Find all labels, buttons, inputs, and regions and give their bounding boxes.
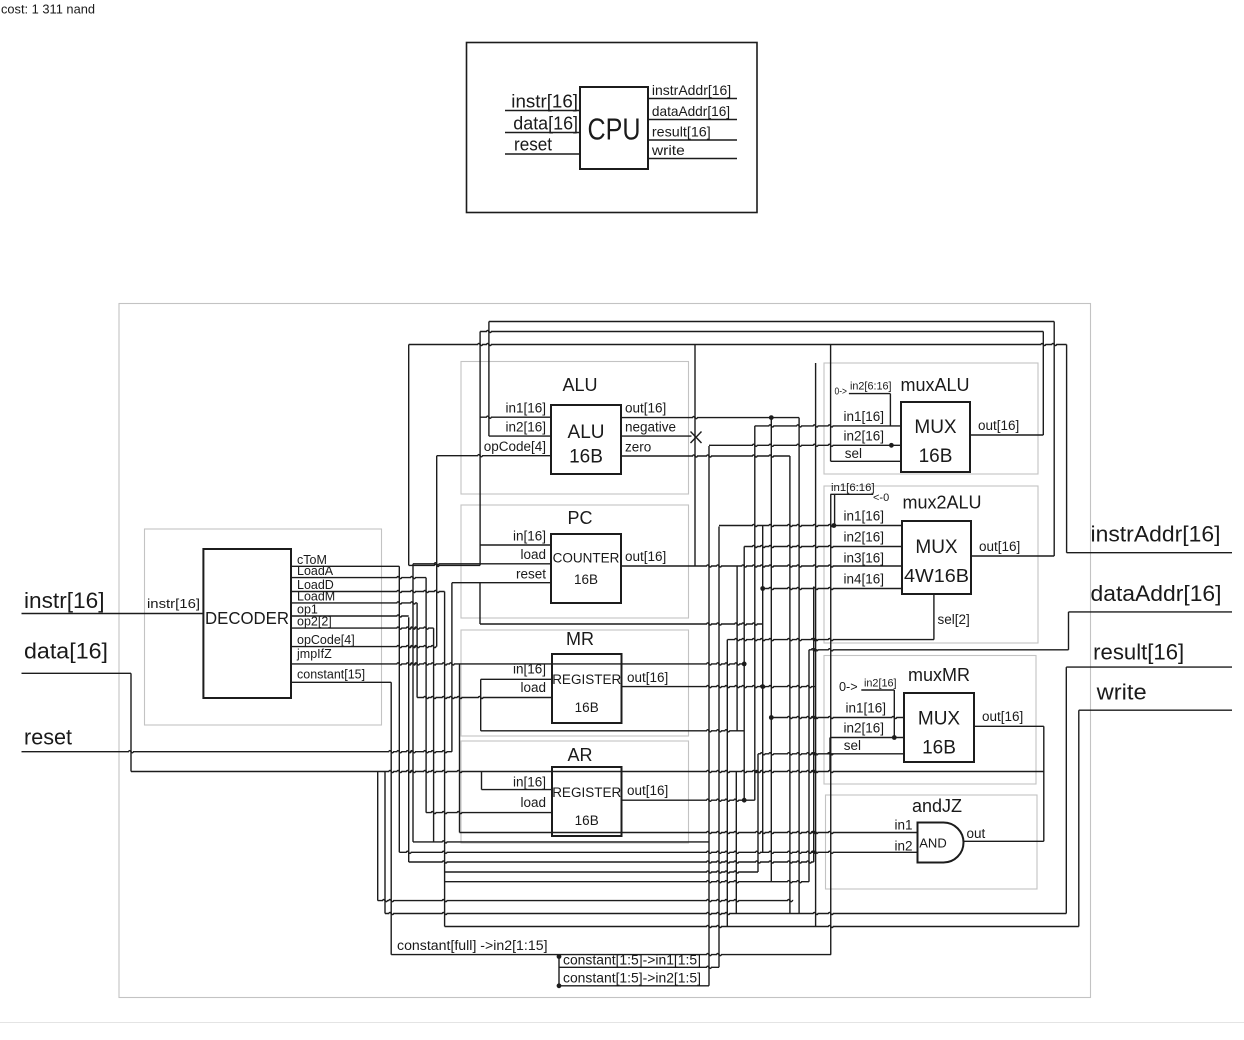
wire muxALU slice line: [849, 393, 891, 395]
ALU group box: [461, 362, 689, 495]
PC U3 COUNTER 16B: [551, 534, 621, 603]
wire AND out wire: [964, 840, 1044, 842]
svg-text:out[16]: out[16]: [625, 549, 666, 564]
wire muxMR in2 wire: [830, 737, 904, 739]
svg-text:data[16]: data[16]: [513, 114, 578, 134]
svg-text:reset: reset: [514, 135, 552, 155]
wire LoadD wire: [291, 590, 445, 592]
wire constant in1[1:5] line: [559, 966, 719, 968]
andJZ group box: [826, 795, 1038, 889]
svg-text:COUNTER: COUNTER: [553, 551, 620, 566]
wire write bottom rail: [445, 925, 1079, 927]
wire mux2ALU in4 wire: [763, 587, 902, 589]
wire muxALU sel wire: [831, 460, 901, 462]
CPU block U0: [580, 87, 648, 169]
wire ALU out riser: [798, 418, 800, 914]
wire result bottom rail: [385, 912, 1066, 914]
wire top rail PC.out to instrAddr: [409, 343, 1067, 345]
svg-text:instr[16]: instr[16]: [24, 588, 105, 613]
svg-text:sel: sel: [844, 738, 861, 753]
wire LoadA riser: [425, 578, 427, 813]
wire reset riser: [451, 583, 453, 752]
svg-text:jmpIfZ: jmpIfZ: [296, 647, 332, 661]
wire muxMR slice line: [861, 689, 894, 691]
svg-text:out[16]: out[16]: [978, 418, 1019, 433]
svg-text:CPU: CPU: [588, 112, 641, 147]
junction at 762.7,686.6: [760, 684, 765, 689]
wire PC out to mux2ALU.in3 wire: [621, 565, 902, 567]
wire result[16] wire: [1066, 666, 1232, 668]
svg-text:AR: AR: [567, 745, 592, 765]
muxALU group box: [824, 363, 1038, 474]
svg-text:load: load: [520, 795, 546, 810]
wire PC in pin wire: [480, 544, 551, 546]
wire bottom rail C: [409, 861, 814, 863]
svg-text:mux2ALU: mux2ALU: [902, 493, 981, 513]
svg-text:in[16]: in[16]: [513, 775, 546, 790]
svg-text:LoadM: LoadM: [297, 589, 335, 603]
wire opCode[4] wire: [291, 646, 437, 648]
wire mux2ALU in4 riser: [813, 587, 815, 863]
wire instr[16] wire: [22, 613, 204, 615]
wire bottom rail E: [445, 881, 809, 883]
wire MR in riser: [480, 679, 482, 731]
junction at 894.3,737.5: [892, 735, 897, 740]
wire PC load pin wire: [413, 563, 551, 565]
wire LoadA wire: [291, 577, 426, 579]
wire dataAddr riser: [1068, 612, 1070, 650]
wire constant[15] wire: [291, 681, 391, 683]
wire muxMR out riser: [1043, 726, 1045, 841]
wire muxALU in1 wire: [755, 425, 901, 427]
CPU internals frame: [119, 304, 1091, 998]
svg-text:in[16]: in[16]: [513, 662, 546, 677]
wire muxALU in2 riser: [708, 446, 710, 986]
wire MR out branch: [762, 526, 764, 853]
wire mux2ALU in1 wire: [719, 524, 902, 526]
mux2ALU U7 MUX 4W16B: [902, 521, 971, 594]
wire muxALU out riser: [1042, 332, 1044, 436]
wire AR out to mux2ALU.in2 riser: [743, 547, 745, 801]
wire opCode riser: [436, 456, 438, 647]
MR U4 REGISTER 16B: [552, 654, 622, 723]
svg-text:instrAddr[16]: instrAddr[16]: [1091, 522, 1221, 547]
svg-text:MUX: MUX: [918, 709, 961, 730]
wire PC out riser: [694, 345, 696, 567]
svg-text:16B: 16B: [919, 446, 953, 467]
junction at 744.2,800.2: [742, 798, 747, 803]
unconnected mark on negative: [691, 432, 702, 444]
wire rail900 riser: [377, 772, 379, 901]
wire AR load pin wire: [426, 812, 552, 814]
wire sel2 riser: [726, 640, 728, 927]
svg-text:load: load: [520, 680, 546, 695]
svg-text:MUX: MUX: [915, 537, 958, 558]
svg-text:AND: AND: [919, 836, 946, 851]
svg-text:op2[2]: op2[2]: [297, 615, 332, 629]
wire ALU opCode pin wire: [437, 455, 551, 457]
wire mux2ALU out riser: [1053, 322, 1055, 557]
svg-text:16B: 16B: [569, 447, 603, 468]
MR group box: [461, 630, 689, 736]
wire muxMR sel riser: [757, 754, 759, 872]
wire top rail muxALU.out to ALU.in1: [480, 330, 1043, 332]
wire mux2ALU slice line: [830, 493, 873, 495]
junction at 833.9,525.5: [832, 523, 837, 528]
svg-text:in2[16]: in2[16]: [505, 420, 546, 435]
svg-text:load: load: [520, 547, 546, 562]
wire slice in1 riser: [834, 494, 836, 525]
ALU U2 ALU 16B: [551, 405, 621, 474]
wire bottom rail F: [378, 900, 793, 902]
wire AR out wire: [622, 799, 755, 801]
svg-text:opCode[4]: opCode[4]: [484, 439, 546, 454]
wire muxALU in2 wire: [709, 444, 901, 446]
wire muxMR out wire: [974, 725, 1044, 727]
svg-text:LoadA: LoadA: [297, 564, 334, 578]
wire data riser: [130, 673, 132, 771]
wire bottom rail A: [413, 841, 709, 843]
wire data / muxMR loop rail: [131, 770, 1044, 772]
svg-text:out[16]: out[16]: [627, 783, 668, 798]
svg-text:reset: reset: [516, 567, 546, 582]
svg-text:16B: 16B: [574, 572, 598, 587]
wire slice to constant rail riser: [830, 494, 832, 954]
DECODER group box: [145, 529, 382, 725]
junction at 771.3,717.5: [769, 715, 774, 720]
wire op1 wire: [291, 615, 409, 617]
wire jmpIfZ riser: [459, 664, 461, 833]
wire PC reset pin wire: [452, 582, 551, 584]
svg-text:muxMR: muxMR: [908, 665, 970, 685]
mux2ALU group box: [824, 486, 1038, 643]
svg-text:in2[16]: in2[16]: [843, 721, 884, 736]
svg-text:out[16]: out[16]: [627, 670, 668, 685]
wire mux2ALU sel riser: [933, 595, 935, 640]
wire PC out to MR loop riser: [736, 566, 738, 731]
svg-text:DECODER: DECODER: [205, 608, 289, 628]
svg-text:in3[16]: in3[16]: [843, 551, 884, 566]
junction at 744.2,663.9: [742, 662, 747, 667]
wire MR load pin wire: [417, 696, 552, 698]
svg-text:dataAddr[16]: dataAddr[16]: [1091, 581, 1222, 606]
wire muxALU in1 riser: [754, 426, 756, 800]
wire result rail riser: [384, 772, 386, 914]
wire op1 riser: [408, 617, 410, 862]
junction at 559,985.8: [557, 983, 562, 988]
wire ALU in2 pin wire: [489, 435, 551, 437]
svg-text:result[16]: result[16]: [1093, 640, 1184, 665]
svg-text:in1[16]: in1[16]: [845, 701, 886, 716]
wire bottom rail D: [445, 871, 758, 873]
svg-text:REGISTER: REGISTER: [552, 672, 621, 687]
svg-text:ALU: ALU: [562, 375, 597, 395]
wire muxMR in1 riser: [808, 650, 810, 882]
junction at 762.7,588.5: [760, 586, 765, 591]
svg-text:MR: MR: [566, 629, 594, 649]
wire constant[15] riser: [390, 682, 392, 954]
wire constant[full] rail: [391, 954, 831, 956]
wire result riser: [1065, 667, 1067, 913]
svg-text:16B: 16B: [922, 738, 956, 759]
svg-text:out[16]: out[16]: [625, 401, 666, 416]
wire PC reset rail riser: [479, 583, 481, 624]
wire write wire: [1079, 709, 1232, 711]
svg-text:constant[15]: constant[15]: [297, 667, 365, 681]
svg-text:negative: negative: [625, 420, 676, 435]
wire LoadD riser: [444, 592, 446, 927]
wire ALU zero wire: [621, 455, 790, 457]
wire ALU in1 pin wire: [480, 416, 551, 418]
svg-text:out[16]: out[16]: [982, 709, 1023, 724]
wire PC loop riser: [408, 345, 410, 566]
wire ALU in1 riser: [479, 332, 481, 566]
wire muxALU sel riser: [830, 345, 832, 462]
page separator line: [0, 1022, 1244, 1024]
wire cToM riser: [398, 566, 400, 852]
svg-text:in2[16]: in2[16]: [843, 530, 884, 545]
svg-text:in2[16]: in2[16]: [864, 678, 897, 690]
svg-text:andJZ: andJZ: [912, 796, 962, 816]
muxALU U6 MUX 16B: [901, 402, 970, 472]
wire mux2ALU in2 wire: [744, 545, 902, 547]
decoder U1 DECODER: [203, 549, 291, 698]
wire constant bracket: [558, 957, 560, 986]
svg-text:instr[16]: instr[16]: [147, 596, 200, 611]
junction at 771.3,417.6: [769, 415, 774, 420]
svg-text:in1[6:16]: in1[6:16]: [831, 482, 875, 494]
svg-text:<-0: <-0: [873, 492, 889, 504]
svg-text:in1: in1: [894, 818, 912, 833]
svg-text:zero: zero: [625, 440, 651, 455]
svg-text:4W16B: 4W16B: [904, 565, 969, 586]
svg-text:16B: 16B: [575, 813, 599, 828]
svg-text:MUX: MUX: [914, 417, 957, 438]
svg-text:ALU: ALU: [568, 422, 605, 443]
wire reset wire: [22, 751, 452, 753]
svg-text:write: write: [1096, 680, 1147, 705]
svg-text:reset: reset: [24, 725, 72, 750]
wire muxMR slice riser: [893, 690, 895, 738]
svg-text:write: write: [651, 142, 685, 158]
svg-text:REGISTER: REGISTER: [552, 785, 621, 800]
wire LoadM wire: [291, 602, 417, 604]
svg-text:constant[1:5]->in2[1:5]: constant[1:5]->in2[1:5]: [563, 971, 701, 986]
svg-text:dataAddr[16]: dataAddr[16]: [652, 103, 730, 119]
svg-text:in4[16]: in4[16]: [843, 572, 884, 587]
svg-text:in1[16]: in1[16]: [843, 409, 884, 424]
wire mux2ALU out wire: [971, 555, 1054, 557]
svg-text:constant[1:5]->in1[1:5]: constant[1:5]->in1[1:5]: [563, 953, 701, 968]
wire zero riser: [789, 456, 791, 914]
wire top rail mux2ALU.out to ALU.in2: [489, 321, 1054, 323]
svg-text:instr[16]: instr[16]: [511, 92, 578, 112]
wire ALU out branch: [770, 418, 772, 882]
junction at 891.4,445.3: [889, 443, 894, 448]
wire MR in loop rail: [481, 730, 745, 732]
wire muxMR in2 riser: [829, 738, 831, 772]
AR group box: [461, 741, 689, 843]
wire AND in1 wire: [460, 831, 918, 833]
svg-text:in1[16]: in1[16]: [505, 401, 546, 416]
PC group box: [461, 505, 689, 618]
wire muxALU slice riser: [889, 394, 891, 426]
svg-text:opCode[4]: opCode[4]: [297, 633, 355, 647]
wire MR in pin wire: [481, 678, 552, 680]
wire PC load riser: [412, 564, 414, 842]
wire muxMR sel wire: [758, 753, 904, 755]
andJZ U9 AND gate: [918, 823, 964, 863]
wire AND in2 wire: [399, 851, 917, 853]
wire PC loop bottom: [409, 564, 480, 566]
wire MR out wire: [622, 686, 816, 688]
svg-text:in1[16]: in1[16]: [843, 509, 884, 524]
svg-text:out[16]: out[16]: [979, 539, 1020, 554]
wire instrAddr riser: [1066, 345, 1068, 553]
wire LoadM riser: [416, 603, 418, 698]
junction at 559,956.5: [557, 954, 562, 959]
wire loop rail hanger: [735, 772, 737, 914]
svg-text:out: out: [967, 826, 986, 841]
wire jmpIfZ wire: [291, 663, 744, 665]
svg-text:constant[full] ->in2[1:15]: constant[full] ->in2[1:15]: [397, 938, 548, 953]
wire sel[2] rail: [727, 639, 934, 641]
svg-text:in2[6:16]: in2[6:16]: [850, 381, 892, 393]
svg-text:in2[16]: in2[16]: [843, 429, 884, 444]
wire dataAddr feed rail: [809, 649, 1069, 651]
wire AR in pin wire: [482, 789, 553, 791]
wire dataAddr[16] wire: [1069, 611, 1233, 613]
svg-text:in2: in2: [894, 839, 912, 854]
wire muxALU out wire: [970, 434, 1043, 436]
wire constant in2[1:5] line: [559, 985, 709, 987]
wire write riser: [1078, 710, 1080, 926]
wire instrAddr[16] wire: [1067, 552, 1232, 554]
wire data[16] wire: [22, 672, 132, 674]
wire long mid rail: [815, 363, 817, 927]
svg-text:instrAddr[16]: instrAddr[16]: [652, 82, 731, 98]
wire ALU negative wire: [621, 435, 692, 437]
CPU overview frame: [467, 43, 758, 213]
svg-text:cost: 1 311 nand: cost: 1 311 nand: [1, 3, 95, 17]
svg-text:16B: 16B: [575, 700, 599, 715]
wire muxMR in1 wire: [771, 716, 904, 718]
wire ALU in2 riser: [488, 322, 490, 437]
wire AR in riser: [481, 772, 483, 790]
AR U5 REGISTER 16B: [552, 767, 622, 836]
svg-text:sel[2]: sel[2]: [938, 612, 970, 627]
svg-text:result[16]: result[16]: [652, 124, 711, 140]
wire PC reset feed rail: [480, 623, 763, 625]
muxMR group box: [824, 656, 1036, 785]
svg-text:0->: 0->: [839, 680, 858, 694]
wire op2 riser: [433, 628, 435, 842]
svg-text:PC: PC: [567, 508, 592, 528]
svg-text:sel: sel: [845, 446, 862, 461]
svg-text:in[16]: in[16]: [513, 529, 546, 544]
wire op2[2] wire: [291, 627, 434, 629]
wire mux2ALU in1 riser: [718, 527, 720, 968]
wire ALU out wire: [621, 417, 799, 419]
wire cToM wire: [291, 565, 399, 567]
svg-text:0->: 0->: [835, 387, 848, 398]
svg-text:muxALU: muxALU: [900, 375, 969, 395]
muxMR U8 MUX 16B: [904, 693, 974, 762]
svg-text:data[16]: data[16]: [24, 639, 108, 664]
